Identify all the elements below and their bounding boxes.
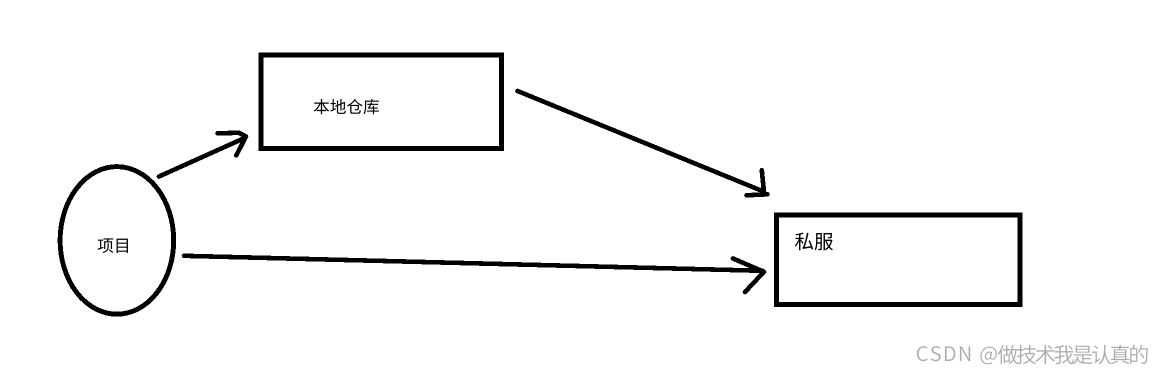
label: 私服 — [795, 233, 833, 251]
rectangle node: 本地仓库 (local repository) — [261, 55, 501, 149]
arrowhead lower barb: 项目 -> 私服 — [745, 272, 764, 292]
arrowhead upper barb: 项目 -> 私服 — [733, 259, 764, 272]
label: 项目 — [98, 238, 128, 253]
arrowhead vertical barb: 本地仓库 -> 私服 — [762, 170, 764, 192]
arrow shaft: 项目 -> 本地仓库 — [159, 139, 244, 177]
arrow shaft: 项目 -> 私服 — [184, 256, 763, 271]
arrow shaft: 本地仓库 -> 私服 — [518, 91, 764, 192]
rectangle node: 私服 (private server) — [776, 215, 1020, 304]
arrowhead upper barb: 项目 -> 本地仓库 — [218, 133, 247, 137]
label: 本地仓库 — [314, 99, 379, 114]
ellipse node: 项目 (project) — [60, 167, 174, 315]
arrowhead lower barb: 项目 -> 本地仓库 — [236, 138, 245, 156]
watermark cjk: 做技术我是认真的 — [998, 345, 1148, 364]
arrowhead horizontal barb: 本地仓库 -> 私服 — [747, 194, 768, 195]
watermark latin: CSDN @ — [917, 346, 997, 364]
